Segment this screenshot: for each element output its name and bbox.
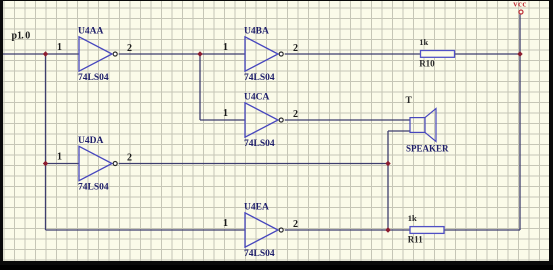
svg-text:0: 0 <box>25 30 30 41</box>
svg-text:2: 2 <box>293 109 298 120</box>
svg-text:1: 1 <box>57 152 62 163</box>
svg-text:U4BA: U4BA <box>244 26 269 36</box>
svg-text:74LS04: 74LS04 <box>78 183 109 193</box>
svg-text:2: 2 <box>127 153 132 164</box>
svg-text:U4DA: U4DA <box>78 136 103 146</box>
svg-text:74LS04: 74LS04 <box>244 139 275 149</box>
svg-text:2: 2 <box>127 43 132 54</box>
svg-text:1: 1 <box>223 108 228 119</box>
svg-text:T: T <box>406 96 413 106</box>
svg-text:1k: 1k <box>408 213 417 223</box>
svg-text:2: 2 <box>293 219 298 230</box>
svg-text:SPEAKER: SPEAKER <box>406 144 449 154</box>
svg-text:1: 1 <box>223 218 228 229</box>
svg-text:1k: 1k <box>419 37 428 47</box>
svg-text:74LS04: 74LS04 <box>244 249 275 259</box>
svg-text:vcc: vcc <box>513 0 526 9</box>
svg-text:1: 1 <box>57 42 62 53</box>
svg-text:R11: R11 <box>408 234 424 244</box>
svg-text:1: 1 <box>223 42 228 53</box>
svg-text:U4EA: U4EA <box>244 202 269 212</box>
svg-text:2: 2 <box>293 43 298 54</box>
svg-text:R10: R10 <box>419 58 435 68</box>
svg-text:74LS04: 74LS04 <box>244 73 275 83</box>
svg-text:U4CA: U4CA <box>244 92 269 102</box>
svg-text:U4AA: U4AA <box>78 26 103 36</box>
svg-text:74LS04: 74LS04 <box>78 73 109 83</box>
